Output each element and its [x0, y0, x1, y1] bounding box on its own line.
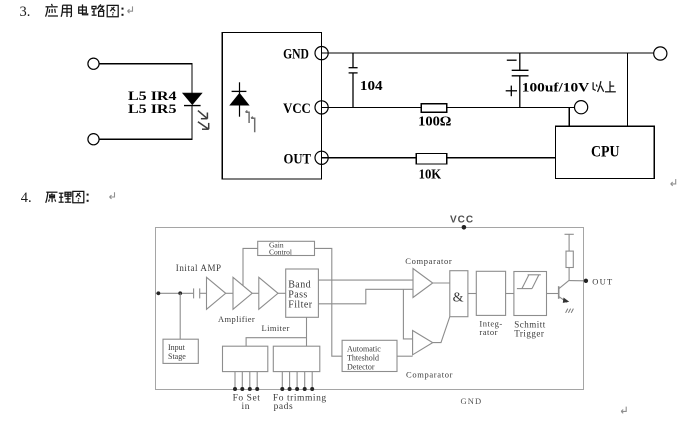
LED D1 (emitter L5 IR4/IR5) — [183, 93, 202, 106]
svg-text:Stage: Stage — [168, 352, 186, 361]
wire limiter branch to Fo set box — [246, 338, 306, 347]
svg-text:VCC: VCC — [283, 101, 311, 117]
title: section 4 heading "4. 原理图：" — [21, 190, 115, 206]
Fo set box — [223, 346, 268, 371]
wire BPF bottom to limiter blocks — [306, 317, 308, 346]
svg-text:&: & — [453, 290, 464, 305]
pins Fo trimming — [282, 372, 312, 390]
Fo trimming pads box — [273, 346, 320, 371]
svg-text:104: 104 — [360, 79, 383, 94]
gain control box — [258, 241, 315, 255]
comparator1 triangle — [413, 269, 433, 298]
hysteresis symbol — [517, 275, 541, 289]
schmitt trigger box — [514, 272, 547, 316]
integrator box — [476, 271, 505, 315]
label L5 IR4 / L5 IR5 — [128, 88, 177, 116]
terminal T1 (top-left input) — [88, 58, 99, 69]
transistor emitter arrowhead — [563, 298, 570, 303]
automatic threshold detector box — [342, 340, 397, 371]
terminal T4 top-right — [654, 47, 667, 60]
terminal T3 VCC out — [575, 101, 588, 114]
svg-text:in: in — [242, 402, 251, 412]
wire branch down to comparator2 — [403, 289, 412, 339]
amplifier stage triangle A3 — [259, 277, 278, 309]
wire vertical GND rail to CPU top — [626, 53, 628, 126]
svg-text:L5 IR5: L5 IR5 — [128, 101, 177, 116]
CPU box — [555, 126, 654, 178]
svg-text:rator: rator — [479, 327, 498, 337]
node dot input B — [178, 291, 182, 295]
AND gate box — [450, 271, 468, 317]
amplifier stage triangle A1 — [207, 277, 226, 309]
wire A3 to band pass filter — [278, 292, 286, 294]
label Fo Set in — [233, 394, 261, 412]
node dot input A — [157, 291, 161, 295]
block diagram outer box — [156, 228, 584, 390]
wire gain control to threshold detector — [315, 248, 343, 356]
wire AND to integrator — [468, 293, 476, 295]
label Integ-rator — [479, 318, 502, 337]
svg-text:100Ω: 100Ω — [418, 114, 451, 129]
svg-text:4.: 4. — [21, 190, 32, 206]
wire T1 to LED anode — [99, 64, 192, 94]
wire VCC rail — [322, 106, 575, 108]
svg-text:Trigger: Trigger — [514, 328, 544, 338]
comparator2 triangle — [413, 331, 433, 355]
resistor R1 100ohm — [421, 104, 447, 113]
wire input line — [156, 292, 194, 294]
wire ATD to comparator2 — [397, 355, 413, 357]
wire gain control to A2 — [243, 248, 258, 285]
svg-text:Thteshold: Thteshold — [347, 353, 379, 362]
svg-text:Automatic: Automatic — [347, 344, 381, 353]
wire LED cathode to T2 — [99, 106, 192, 140]
wire VCC tap to resistor — [565, 234, 574, 251]
wire comparator1 to AND gate — [433, 282, 450, 284]
svg-text:Input: Input — [168, 343, 186, 352]
svg-text:Amplifier: Amplifier — [218, 314, 255, 324]
svg-text:Filter: Filter — [288, 299, 313, 310]
svg-text:CPU: CPU — [591, 143, 620, 160]
photodiode D2 inside U1 — [230, 82, 249, 116]
svg-text:pads: pads — [274, 402, 294, 412]
wire integrator to schmitt — [506, 293, 514, 295]
svg-text:Limiter: Limiter — [262, 323, 290, 333]
transistor Q1 — [559, 280, 569, 302]
LED light emission arrows — [198, 111, 209, 130]
label Schmitt Trigger — [514, 319, 546, 338]
label Gain Control — [269, 241, 292, 257]
svg-text:Control: Control — [269, 248, 292, 257]
wire GND rail — [322, 52, 654, 54]
wire A2-A3 — [252, 292, 259, 294]
svg-text:OUT: OUT — [284, 151, 312, 167]
wire BPF lower output path — [318, 289, 413, 304]
wire BPF upper output to comparator1 — [318, 279, 413, 281]
emitter ground hatch — [566, 309, 574, 313]
wire A1-A2 — [226, 292, 233, 294]
IC U1 receiver module box — [222, 32, 321, 179]
wire schmitt to transistor base — [547, 293, 559, 295]
label Band Pass Filter — [288, 279, 313, 310]
amplifier stage triangle A2 — [233, 277, 252, 309]
label Input Stage — [168, 343, 186, 361]
band pass filter box — [286, 269, 319, 317]
label 100uf/10V以上 — [522, 80, 616, 95]
capacitor C2 electrolytic — [506, 53, 529, 107]
svg-text:GND: GND — [461, 396, 483, 406]
pin VCC terminal circle — [315, 101, 328, 114]
svg-text:OUT: OUT — [592, 276, 613, 286]
svg-text:100uf/10V: 100uf/10V — [522, 80, 590, 95]
label Fo trimming pads — [273, 394, 327, 412]
capacitor coupling (block) — [194, 288, 207, 298]
input stage box — [163, 339, 198, 363]
pin GND terminal circle — [315, 47, 328, 60]
paragraph mark after circuit — [671, 179, 676, 186]
VCC junction dot — [462, 225, 467, 230]
svg-text:Inital AMP: Inital AMP — [176, 263, 222, 273]
terminal T2 (bottom-left input) — [88, 134, 99, 145]
paragraph mark bottom — [621, 407, 626, 414]
svg-text:GND: GND — [283, 47, 309, 63]
svg-text:Comparator: Comparator — [406, 369, 453, 379]
wire node B to input stage — [179, 293, 181, 339]
wire resistor to collector node — [568, 268, 570, 281]
svg-text:Detector: Detector — [347, 362, 375, 371]
resistor R3 pull-up — [566, 251, 573, 267]
svg-text:Comparator: Comparator — [405, 256, 452, 266]
svg-text:3.: 3. — [20, 4, 31, 20]
wire collector node to OUT — [569, 280, 584, 282]
capacitor C1 104 — [349, 53, 358, 107]
photodiode incoming light arrows — [246, 111, 255, 133]
wire OUT rail — [322, 157, 556, 159]
pins Fo set — [235, 372, 257, 390]
wire comparator2 to AND gate — [433, 317, 450, 343]
wire VCC node to CPU top — [568, 107, 570, 126]
svg-text:VCC: VCC — [450, 215, 474, 226]
resistor R2 10K — [416, 154, 447, 165]
pin OUT terminal circle — [315, 151, 328, 164]
label Automatic Threshold Detector — [347, 344, 381, 371]
svg-text:10K: 10K — [419, 168, 442, 183]
OUT node dot — [584, 279, 588, 283]
title: section 3 heading "3. 应用电路图:" — [20, 4, 133, 20]
